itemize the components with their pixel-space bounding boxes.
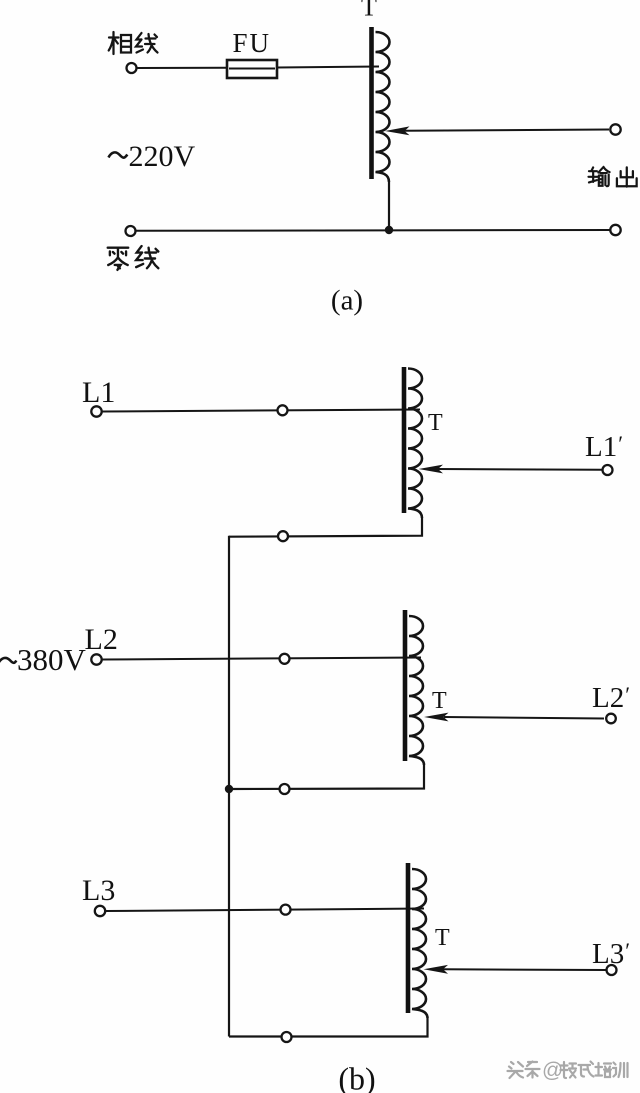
transformer 1 winding (b) xyxy=(408,369,422,519)
connector circle on L1 wire xyxy=(278,405,288,415)
wire L2 to transformer 2 xyxy=(103,658,422,660)
svg-text:T: T xyxy=(361,0,377,22)
terminal phase-line input xyxy=(127,63,137,73)
svg-text:@: @ xyxy=(542,1059,563,1082)
connector circle on L2 wire xyxy=(280,654,290,664)
transformer T core (a) xyxy=(369,27,374,179)
junction dot neutral/winding xyxy=(385,226,393,234)
transformer T winding (a) xyxy=(376,32,390,182)
transformer 3 winding (b) xyxy=(412,869,428,1018)
terminal L2' xyxy=(606,714,616,724)
terminal L3 xyxy=(95,906,105,916)
watermark 头条@技成培训 xyxy=(508,1059,629,1082)
svg-text:FU: FU xyxy=(233,28,272,58)
terminal L1' xyxy=(603,465,613,475)
transformer 2 winding (b) xyxy=(409,616,424,765)
transformer 2 core (b) xyxy=(403,610,408,761)
label ~380V xyxy=(0,658,16,664)
wiper arrow transformer 2 xyxy=(444,717,604,719)
fuse FU xyxy=(227,60,277,78)
label 输出 (output) xyxy=(588,167,609,186)
svg-text:L2′: L2′ xyxy=(592,682,630,714)
svg-text:380V: 380V xyxy=(17,642,87,677)
terminal L3' xyxy=(607,965,617,975)
connector circle on transformer1 bottom wire xyxy=(278,531,288,541)
label 零线 (neutral line) xyxy=(108,248,129,270)
neutral wire xyxy=(136,229,610,232)
wiper arrow transformer 3 xyxy=(443,968,606,971)
wire terminal to fuse xyxy=(137,67,227,69)
wire L3 to transformer 3 xyxy=(106,909,424,912)
transformer 1 core (b) xyxy=(402,367,407,513)
junction dot bus / transformer2 bottom xyxy=(225,785,233,793)
svg-text:T: T xyxy=(428,410,443,436)
wiper arrow (a) xyxy=(404,130,609,131)
wire fuse to transformer xyxy=(277,67,379,68)
terminal neutral input xyxy=(126,226,136,236)
common bus vertical wire xyxy=(228,536,230,1037)
svg-text:L2: L2 xyxy=(85,623,118,656)
svg-text:L1′: L1′ xyxy=(585,431,623,463)
wire transformer 3 bottom to bus xyxy=(229,1018,428,1037)
svg-text:(a): (a) xyxy=(331,285,363,317)
terminal L2 xyxy=(91,654,101,664)
label ~220V xyxy=(109,152,128,157)
svg-text:L1: L1 xyxy=(82,376,115,409)
wiper arrow transformer 1 xyxy=(437,468,602,471)
terminal output bottom (a) xyxy=(610,225,620,235)
svg-text:L3′: L3′ xyxy=(592,938,630,970)
svg-text:L3: L3 xyxy=(82,874,115,907)
label 相线 (phase line) xyxy=(109,32,158,54)
connector circle on transformer2 bottom wire xyxy=(280,784,290,794)
transformer 3 core (b) xyxy=(406,863,411,1013)
wire L1 to transformer 1 xyxy=(103,410,421,412)
svg-text:T: T xyxy=(432,688,447,714)
wire transformer 2 bottom to bus xyxy=(229,765,424,789)
connector circle on transformer3 bottom wire xyxy=(282,1032,292,1042)
connector circle on L3 wire xyxy=(281,905,291,915)
svg-text:(b): (b) xyxy=(338,1061,375,1093)
svg-text:220V: 220V xyxy=(129,140,196,173)
wire winding end down to neutral junction xyxy=(388,182,390,230)
terminal L1 xyxy=(91,406,101,416)
svg-text:T: T xyxy=(435,925,450,951)
terminal output top (a) xyxy=(610,124,620,134)
wire transformer 1 bottom to bus xyxy=(229,518,422,537)
